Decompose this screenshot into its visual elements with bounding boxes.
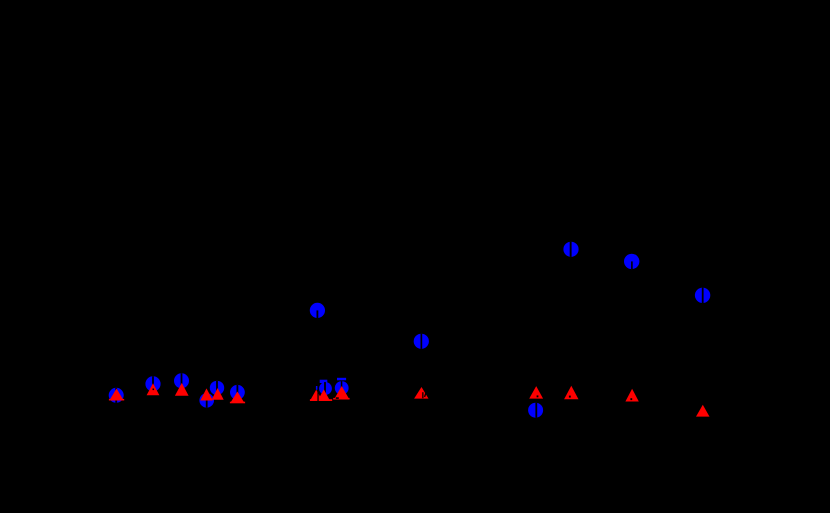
blue circle C4 <box>199 393 214 408</box>
red triangle T8 <box>318 389 331 401</box>
red triangle T1 <box>109 389 124 401</box>
blue circle C9 <box>335 381 349 395</box>
black errorbar line over T7/T8 <box>316 386 319 401</box>
red triangle T10 <box>414 387 428 399</box>
red triangle T2 <box>147 383 160 395</box>
red errorbar base bar under T7/T8 <box>310 399 332 401</box>
blue circle C12 <box>563 242 578 257</box>
blue circle C6 <box>230 385 245 400</box>
red triangle T13 <box>625 389 638 402</box>
red triangle T9 <box>333 386 349 400</box>
blue circle C7 <box>310 303 325 318</box>
red triangle T7 <box>310 390 323 401</box>
red triangle T5 <box>212 388 224 400</box>
blue circle C14 <box>695 288 710 303</box>
blue circle C1 <box>109 388 124 403</box>
blue circle C2 <box>145 376 160 391</box>
blue circle C3 <box>174 373 189 388</box>
blue errorbar cap B1 <box>320 380 328 383</box>
red triangle T14 <box>696 405 710 417</box>
blue circle C10 <box>414 334 429 349</box>
blue circle C8 <box>319 382 332 395</box>
blue circle C13 <box>624 254 639 269</box>
red triangle T3 <box>175 383 189 396</box>
blue circle C5 <box>210 381 224 395</box>
red triangle T4 <box>200 388 213 400</box>
blue errorbar cap B2 <box>337 378 346 381</box>
red triangle T12 <box>564 386 578 399</box>
blue circle C11 <box>528 403 543 418</box>
red triangle T6 <box>230 392 245 404</box>
red triangle T11 <box>529 386 543 399</box>
